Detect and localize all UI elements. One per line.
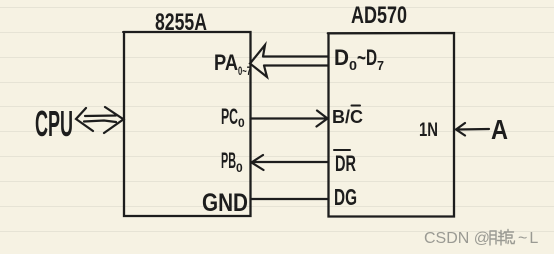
svg-text:CSDN @: CSDN @ [424,230,490,247]
svg-text:1N: 1N [419,120,438,141]
svg-text:CPU: CPU [35,103,73,144]
svg-text:AD570: AD570 [351,2,407,29]
svg-text:~L: ~L [518,230,540,247]
svg-text:DR: DR [335,151,356,176]
svg-text:DG: DG [334,184,357,210]
svg-text:D0~D7: D0~D7 [334,45,384,73]
svg-text:8255A: 8255A [155,9,207,36]
svg-text:GND: GND [202,189,248,217]
svg-text:B/C: B/C [332,107,363,127]
svg-text:A: A [491,114,508,145]
